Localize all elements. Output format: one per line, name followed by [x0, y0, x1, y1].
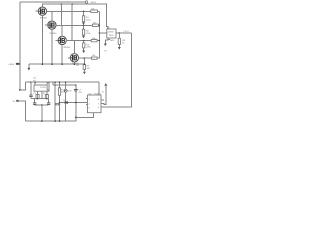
node dot ladder node4 — [84, 57, 86, 59]
wire: U3 left pin 2 diode wire — [60, 102, 88, 104]
svg-text:C9: C9 — [104, 50, 108, 52]
svg-text:IRF840: IRF840 — [63, 47, 71, 49]
transistor Q3 — [58, 36, 66, 44]
wire: center ground drop x41.8 — [41, 105, 43, 121]
node dot rail x35.2 — [35, 82, 36, 83]
node dot P1 — [37, 98, 38, 99]
svg-text:0V: 0V — [13, 101, 16, 103]
node dot rail x30.7 — [30, 82, 31, 83]
wire: U1 top pin right — [47, 82, 49, 85]
node dot P2 — [46, 98, 47, 99]
node dot bus Q2 — [51, 63, 53, 65]
wire: cap leg x71.8 rail to node3 — [71, 4, 73, 40]
svg-text:220k: 220k — [86, 33, 91, 35]
wire: node2 line y25.3 — [56, 24, 93, 26]
preset P1 — [36, 95, 39, 99]
wire: gnd terminal to bottom rail — [19, 101, 26, 121]
net arrow down at bus left end — [28, 64, 30, 68]
resistor R7 — [59, 82, 61, 88]
node dot bus/LM317 — [99, 32, 100, 33]
resistor R5 below bus — [83, 58, 85, 64]
IC U1 shunt box — [34, 85, 49, 91]
wire: node1 line y11.3 — [46, 10, 90, 12]
wire: LM317 input from sense bus — [99, 32, 107, 34]
wire: node3 line y40.6 — [66, 40, 91, 42]
svg-text:R5: R5 — [76, 65, 80, 67]
LED D2 — [65, 82, 67, 89]
preset P2 — [45, 95, 48, 99]
wire: Q2 source down to bus — [51, 29, 53, 64]
node dot rail x65.6 — [65, 82, 66, 83]
wire: rail left jog to HV wire — [20, 82, 26, 90]
node dot bus R5 — [84, 63, 86, 65]
resistor R11 horizontal node1 — [91, 10, 98, 12]
wire: sub-rail y85.2 — [53, 84, 76, 86]
terminal HV input block — [16, 63, 20, 65]
wire: bottom ground rail y121.1 — [25, 117, 76, 121]
wire: sense bus x99.3 — [97, 11, 99, 58]
svg-text:+380V: +380V — [8, 64, 15, 66]
svg-text:Vc: Vc — [102, 92, 104, 94]
svg-text:ref: ref — [33, 79, 36, 82]
capacitor C5 — [48, 99, 50, 103]
svg-text:TL431: TL431 — [40, 87, 47, 89]
svg-text:100: 100 — [87, 68, 91, 70]
node dot cap link — [41, 104, 43, 106]
node dot diode wire x77.3 — [75, 102, 77, 104]
wire: rail right drop to U3 — [98, 82, 100, 95]
wire: U3 bottom pin to cap leg — [76, 113, 94, 118]
svg-text:220k: 220k — [86, 47, 91, 49]
node dot bus Q4 — [74, 63, 76, 65]
wire: U3 right pin 7 to +15 arrow — [101, 86, 106, 105]
resistor R14 horizontal node4 — [92, 57, 98, 59]
wire: U3 left pin stub 1 — [86, 98, 88, 100]
node dot HV wire bottom — [19, 89, 21, 91]
node dot ladder node2 — [83, 25, 85, 27]
wire: preset link y98.7 — [31, 98, 47, 100]
wire: left HV wire vertical x19.8 — [19, 2, 21, 90]
resistor R3 ladder — [83, 41, 85, 43]
node dot bus/node3 — [99, 40, 100, 41]
capacitor C3 on rail — [47, 81, 49, 84]
resistor R2 ladder — [83, 25, 85, 29]
wire: top rail y3.6 — [42, 4, 108, 29]
wire: Q4 source down to bus — [73, 62, 75, 64]
wire: U3 left pin stub 3 — [86, 104, 88, 106]
node dot diode wire x59.5 — [59, 102, 60, 103]
wire: U1 bottom pin a — [36, 91, 38, 94]
node dot bus Q3 — [61, 63, 63, 65]
wire: U1 top pin left — [34, 82, 36, 85]
node dot rail/C2 — [71, 3, 73, 5]
capacitor C8 small — [30, 82, 32, 95]
svg-text:LM317: LM317 — [108, 32, 115, 34]
wire: low rail y81.7 — [26, 81, 100, 83]
wire: Q1 gate stub — [35, 10, 38, 12]
node dot x77.3 y117.3 — [75, 117, 77, 119]
wire: source bus y63.8 — [29, 63, 84, 65]
net arrow up +15V — [104, 83, 107, 86]
wire: Q3 gate stub — [56, 39, 59, 41]
svg-text:47u: 47u — [78, 92, 82, 94]
wire: vertical x55.2 rail to bottom — [54, 82, 56, 121]
node dot bottom rail x55.2 — [54, 120, 56, 122]
transistor Q1 — [38, 7, 46, 15]
wire: node4 line y57.9 — [78, 57, 91, 59]
node dot ladder node3 — [83, 40, 85, 42]
wire: U1 bottom pin c — [46, 91, 48, 94]
node dot bottom rail x41.8 — [41, 120, 43, 122]
resistor R13 horizontal node3 — [91, 40, 97, 42]
node dot rail x55.2 — [55, 82, 56, 83]
wire: top wire y2 to +380V terminal — [20, 1, 86, 3]
wire: Q2 gate stub — [45, 24, 48, 26]
IC U3 opto box — [88, 95, 102, 113]
svg-text:220k: 220k — [86, 19, 91, 21]
wire: U1 bottom pin b — [41, 91, 43, 99]
terminal +380V open circle — [85, 1, 87, 3]
wire: Q3 source down to bus — [61, 44, 63, 64]
node dot bus Q1 — [42, 63, 44, 65]
wire: LM317 output y33 — [116, 32, 131, 34]
svg-text:PC817: PC817 — [94, 93, 101, 95]
svg-text:REG: REG — [109, 35, 114, 37]
resistor R6 output — [118, 33, 120, 38]
transistor Q4 — [70, 54, 78, 62]
svg-text:ADJ: ADJ — [110, 39, 114, 42]
wire: Q3 drain up to node2 — [61, 25, 63, 36]
resistor R1 ladder — [83, 11, 85, 16]
wire: Q4 gate stub — [68, 57, 71, 59]
svg-text:+15 V: +15 V — [123, 31, 129, 33]
wire: Q1 source down to bus — [41, 15, 43, 64]
capacitor C6 small — [56, 103, 59, 105]
transistor Q2 — [48, 21, 56, 29]
svg-text:LED: LED — [67, 91, 72, 93]
capacitor C4 — [34, 99, 36, 103]
wire: Q4 drain up to node3 — [73, 41, 75, 54]
wire: cap link y105 — [35, 104, 49, 106]
wire: Q2 drain up to node1 — [51, 11, 53, 21]
node dot bottom rail x59.5 — [59, 120, 61, 122]
svg-text:1k: 1k — [122, 43, 125, 45]
svg-text:IRF840: IRF840 — [50, 33, 58, 35]
node dot output — [119, 32, 121, 34]
capacitor C7 electrolytic — [75, 85, 77, 89]
terminal GND block — [16, 100, 18, 102]
wire: cap leg x61.4 rail to node2 — [60, 4, 62, 25]
wire: +15V loop down right side — [101, 33, 131, 107]
node dot rail/C1 — [61, 3, 63, 5]
wire: U3 right pin stub 8 — [101, 99, 104, 101]
node dot bus/node2 — [99, 25, 100, 26]
node dot rail x59.5 — [59, 82, 60, 83]
diode D1 — [65, 101, 68, 104]
wire: LM317 adj pin — [107, 38, 109, 39]
node dot ladder top — [83, 11, 85, 13]
svg-text:IRF840: IRF840 — [40, 18, 48, 20]
